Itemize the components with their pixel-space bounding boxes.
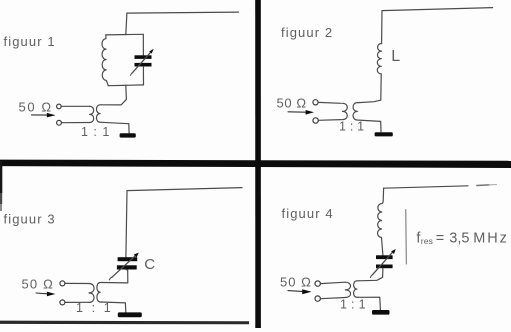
- svg-text:1 : 1: 1 : 1: [339, 120, 364, 134]
- wire: drop from antenna to tank top (fig 1): [126, 13, 127, 34]
- wire: vertical to inductor (fig 4): [382, 188, 384, 203]
- svg-text:50 Ω: 50 Ω: [277, 96, 307, 111]
- svg-text:figuur 2: figuur 2: [281, 25, 333, 40]
- wire: lower primary lead (fig 3): [65, 301, 89, 303]
- left edge scan strip: [0, 161, 2, 193]
- wire: lower primary lead (fig 4): [320, 298, 345, 299]
- wire: vertical to capacitor (fig 3): [126, 191, 127, 258]
- svg-text:figuur 1: figuur 1: [4, 34, 56, 49]
- wire: secondary bottom to ground (fig 2): [359, 120, 381, 132]
- inductor L (fig 2): [377, 43, 381, 73]
- wire: antenna faint continuation (fig 4): [477, 184, 489, 187]
- svg-text:50 Ω: 50 Ω: [22, 277, 55, 292]
- wire: capacitor to transformer secondary (fig 3): [101, 270, 127, 283]
- transformer T3 secondary winding (fig 3): [97, 283, 102, 303]
- transformer T3 primary winding (fig 3): [89, 284, 94, 303]
- wire: antenna top horizontal (fig 1): [127, 12, 239, 13]
- wire: upper primary lead (fig 2): [318, 101, 341, 104]
- terminal circle lower (fig 2): [313, 118, 318, 123]
- variable capacitor C arrow (fig 3): [112, 255, 137, 278]
- inductor L1 (tank coil, fig 1): [102, 35, 108, 86]
- terminal circle lower (fig 4): [315, 296, 320, 301]
- wire: inductor to transformer secondary (fig 2): [359, 74, 381, 103]
- variable capacitor C1 upper plate (fig 1): [135, 55, 152, 59]
- svg-text:1 : 1: 1 : 1: [76, 301, 113, 315]
- tank bottom wire (fig 1): [108, 84, 143, 87]
- svg-text:C: C: [144, 256, 155, 273]
- svg-text:1 : 1: 1 : 1: [340, 298, 366, 312]
- ground (fig 4): [372, 310, 390, 315]
- input arrow (fig 3): [36, 292, 47, 295]
- terminal circle upper (fig 1): [57, 104, 62, 109]
- terminal circle lower (fig 3): [60, 300, 65, 305]
- variable capacitor C1 arrow (fig 1): [132, 51, 151, 72]
- wire: capacitor to transformer secondary (fig 4): [359, 268, 383, 281]
- wire: secondary bottom to ground (fig 1): [102, 122, 130, 133]
- wire: lower primary lead (fig 2): [318, 119, 341, 122]
- tank right side lower wire (fig 1): [142, 67, 144, 85]
- variable capacitor C4 lower plate (fig 4): [376, 265, 393, 269]
- ground (fig 2): [375, 132, 393, 136]
- wire: antenna top horizontal (fig 3): [127, 188, 242, 191]
- vertical divider between columns: [255, 0, 261, 328]
- variable capacitor C4 arrow (fig 4): [373, 251, 394, 275]
- variable capacitor C upper plate (fig 3): [118, 257, 138, 261]
- transformer T2 primary winding (fig 2): [343, 103, 348, 119]
- wire: antenna top horizontal (fig 2): [382, 8, 493, 11]
- tank top wire (fig 1): [106, 33, 144, 36]
- wire: inductor to capacitor (fig 4): [382, 238, 383, 256]
- wire: vertical to inductor (fig 2): [381, 11, 383, 44]
- terminal circle upper (fig 3): [60, 281, 65, 286]
- ground (fig 1): [120, 133, 136, 137]
- variable capacitor C1 lower plate (fig 1): [135, 63, 152, 67]
- svg-text:1 : 1: 1 : 1: [81, 125, 110, 139]
- tank right side upper wire (fig 1): [142, 34, 144, 55]
- wire: upper primary lead (fig 3): [65, 282, 89, 284]
- wire: upper primary lead (fig 4): [320, 282, 345, 283]
- resonance bracket line (fig 4): [405, 210, 408, 265]
- svg-text:50 Ω: 50 Ω: [19, 100, 53, 115]
- transformer T2 secondary winding (fig 2): [353, 103, 359, 121]
- svg-text:L: L: [391, 48, 400, 65]
- wire: secondary bottom to ground (fig 4): [359, 297, 381, 310]
- terminal circle upper (fig 2): [313, 100, 318, 105]
- transformer T1 secondary winding (fig 1): [96, 105, 101, 123]
- svg-text:figuur 3: figuur 3: [4, 212, 56, 227]
- transformer T4 secondary winding (fig 4): [354, 281, 359, 298]
- input arrow (fig 4): [288, 290, 302, 293]
- transformer T4 primary winding (fig 4): [345, 282, 350, 297]
- variable capacitor C4 upper plate (fig 4): [376, 255, 393, 259]
- variable capacitor C lower plate (fig 3): [117, 265, 137, 269]
- input arrow (fig 2): [288, 111, 306, 113]
- input arrow (fig 1): [32, 114, 48, 116]
- bottom-left page edge line: [0, 321, 249, 325]
- wire: lower primary lead (fig 1): [61, 122, 89, 124]
- wire: secondary bottom to ground (fig 3): [102, 302, 126, 312]
- wire: upper primary lead (fig 1): [61, 105, 90, 107]
- wire: tank bottom to transformer secondary (fig 1): [101, 85, 126, 105]
- transformer T1 primary winding (fig 1): [90, 106, 94, 122]
- ground (fig 3): [118, 312, 142, 317]
- svg-text:figuur 4: figuur 4: [282, 206, 334, 221]
- terminal circle upper (fig 4): [315, 281, 320, 286]
- terminal circle lower (fig 1): [57, 120, 62, 125]
- horizontal divider between rows: [0, 160, 511, 168]
- svg-text:50 Ω: 50 Ω: [280, 275, 312, 290]
- inductor L4 (fig 4): [378, 203, 382, 237]
- wire: antenna top horizontal (fig 4): [384, 186, 468, 188]
